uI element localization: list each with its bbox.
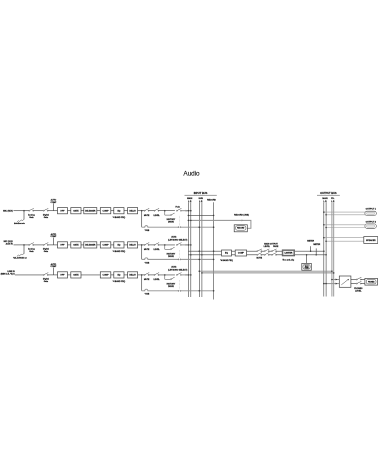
box EQ row2 [114,242,124,248]
wire main bus to fader lower [324,283,340,285]
box COMP row2 [100,242,111,248]
input bus header line [185,194,217,196]
meter tap R [315,248,317,254]
node record bus row1 [213,226,215,228]
node main bus R row3 [190,274,192,276]
svg-text:DELAY: DELAY [129,209,136,212]
wire COMP-EQ row3 [111,274,114,276]
node output bus main L [323,250,325,252]
arrow fader upper [336,279,338,281]
input label LINE IN row3 [1,271,16,276]
wire sub bus to master EQ lower [188,254,221,256]
svg-text:FADE: FADE [273,245,279,248]
label digital gain row1 [43,213,49,219]
wire master level-fade L [269,250,272,252]
wire pre-fader drop row2 [141,245,143,260]
box GATE row1 [71,208,81,214]
svg-text:COMP: COMP [103,210,110,212]
switch level row3 [154,273,159,276]
node recorder wire L [188,220,190,222]
wire input to analog gain row1 [14,210,30,212]
wire HPF-GATE row3 [68,274,71,276]
wire digital gain to HPF row2 [48,244,58,246]
wire fade switch to main bus row1 [181,210,191,212]
wire fader to phones switch lower [351,283,357,285]
box COMP row1 [100,208,111,214]
node phantom tap row2 [23,244,25,246]
output bus header line [317,194,340,196]
svg-text:MAIN OUTPUT: MAIN OUTPUT [264,243,278,246]
svg-text:MUTE: MUTE [144,279,150,281]
arrow into main bus row2 [186,244,188,246]
node meter L [310,250,312,252]
node test tone [306,254,308,256]
input label MIC2,3/AUX row2 [4,241,14,246]
switch digital gain row1 [43,208,48,211]
switch level row2 [154,243,159,246]
svg-text:*USB: *USB [145,294,150,296]
svg-text:L R: L R [199,201,203,203]
svg-text:DE-ESSER: DE-ESSER [85,210,96,212]
box DELAY row2 [128,242,138,248]
node speaker L [323,237,325,239]
channel row 3 LINE IN [1,263,215,296]
test tone tap [306,255,308,264]
wire master COMP to mute R [247,254,258,256]
input bus label MAIN L R [187,197,193,203]
selector pivot row2 [170,247,174,250]
wire master mute-level L [261,250,264,252]
svg-text:GATE: GATE [73,209,79,212]
wire main bus to recorder [188,220,251,228]
node output bus main R [325,254,327,256]
wire DEESSER-COMP row2 [97,244,101,246]
svg-text:*USB: *USB [145,230,150,232]
node sub L tap [199,270,201,272]
svg-text:DRIVE: DRIVE [168,286,175,288]
node record tap right [213,215,215,217]
svg-text:SPEAKER: SPEAKER [366,239,376,242]
wire master mute-level R [261,254,264,256]
svg-text:MAIN: MAIN [187,197,193,200]
wire phantom drop row1 [23,211,25,220]
box COMP row3 [100,272,111,278]
switch analog gain row2 [29,243,34,246]
svg-text:COMP: COMP [103,275,110,277]
label history drive row3 [167,283,176,288]
selector dashed link row1 [179,216,181,226]
node output2 R [325,227,327,229]
svg-text:AUX6: AUX6 [171,265,177,268]
node output1 L [323,211,325,213]
wire COMP-EQ row1 [111,210,114,212]
node main bus L row1 [188,210,190,212]
node recorder wire R [190,220,192,222]
wire DELAY to mute row2 [138,244,145,246]
node speaker R [325,240,327,242]
svg-text:DRIVE: DRIVE [168,256,175,258]
box DE-ESSER row2 [84,242,97,248]
input bus MAIN L vertical [187,202,189,297]
selector contacts on record send row1 [178,227,181,228]
wire phantom drop row2 [23,245,25,254]
label analog gain row1 [28,213,35,219]
test tone box [302,263,312,270]
wire DEESSER-COMP row1 [97,210,101,212]
phones fader box [339,276,351,287]
node main bus R row1 [190,210,192,212]
node output1 R [325,214,327,216]
output bus PH L vertical [331,202,333,296]
selector drop row2 [165,245,170,249]
svg-text:SUB: SUB [199,198,204,200]
node main bus L row2 [188,244,190,246]
node phones bus L join [331,270,333,272]
switch fade row1 [176,208,181,211]
svg-text:TEST: TEST [305,266,309,268]
node master feed upper 2 [213,250,215,252]
wire output2 L [324,224,365,226]
wire HPF-GATE row1 [68,210,71,212]
label digital gain row2 [43,248,49,254]
wire level to fade switch row2 [159,244,175,246]
auto comp tap row2 [52,238,54,245]
label digital gain row3 [43,278,49,284]
wire limiter to output bus R [295,254,327,256]
selector drop row3 [165,275,170,279]
wire output2 R [326,227,365,229]
svg-text:AUX IN: AUX IN [6,243,14,246]
svg-text:EQ: EQ [225,253,228,255]
wire record send right row1 [181,226,213,228]
svg-text:COMP: COMP [50,236,57,238]
label history drive row2 [167,253,176,257]
wire analog to digital gain row2 [33,244,44,246]
svg-text:COMP: COMP [103,245,110,247]
node master feed upper 1 [199,250,201,252]
switch master mute L [257,249,262,252]
label analog gain row2 [28,248,35,254]
switch phones level lower [356,281,361,284]
wire input to digital gain row3 [15,274,44,276]
node pre-mute junction row2 [141,244,143,246]
wire mute-level row2 [149,244,155,246]
label main send row2 [168,235,187,241]
box EQ row3 [114,272,124,278]
wire input to analog gain row2 [14,244,30,246]
selector contacts on record send row2 [178,259,181,260]
box HPF row1 [58,208,68,214]
wire master COMP to mute L [247,250,258,252]
svg-text:*4 BAND PEQ: *4 BAND PEQ [113,280,126,283]
box HPF row3 [58,272,68,278]
wire GATE-DEESSER row2 [81,244,84,246]
svg-text:GATE: GATE [73,274,79,277]
svg-text:RECORD (USB): RECORD (USB) [234,214,249,216]
svg-text:Gain: Gain [44,281,49,283]
svg-text:OUTPUT 1: OUTPUT 1 [366,208,377,210]
wire analog to digital gain row1 [33,210,44,212]
svg-text:(L/R MONO SELECT): (L/R MONO SELECT) [168,240,187,242]
switch mute row3 [144,273,149,276]
node sub bus tap row1 [199,226,201,228]
label auto comp row3 [50,263,57,268]
input bus RECORD vertical [213,202,215,299]
wire master level-fade R [269,254,272,256]
svg-text:The anti-clip: The anti-clip [282,258,294,261]
svg-text:LEVEL: LEVEL [264,246,271,248]
wire fader to phones switch upper [351,279,357,281]
node post-level junction row3 [164,274,166,276]
phantom squiggle row1 [17,219,24,222]
output bus MAIN R vertical [325,202,327,296]
input bus MAIN R vertical [190,202,192,297]
svg-text:AUX6: AUX6 [171,235,177,238]
switch fade row2 [176,243,181,246]
svg-text:PHONES: PHONES [368,282,375,284]
output bus label PH L R [331,198,335,203]
wire sub bus to phones bus R [202,272,334,274]
box GATE row3 [71,272,81,278]
selector contacts on record send row3 [178,290,181,291]
wire EQ-DELAY row3 [124,274,128,276]
wire main to recorder tap [188,214,213,216]
wire fade switch to main bus row2 [181,244,191,246]
wire sub bus to master EQ upper [188,250,221,252]
wire speaker L [324,237,364,239]
svg-text:EQ: EQ [117,245,120,247]
box HPF row2 [58,242,68,248]
svg-text:MAIN: MAIN [322,197,328,200]
wire EQ-DELAY row1 [124,210,128,212]
node sub R tap [201,272,203,274]
svg-text:(MINI 3.5, *4) S: (MINI 3.5, *4) S [1,273,16,276]
box GATE row2 [71,242,81,248]
node phantom tap row1 [23,210,25,212]
svg-text:DRIVE: DRIVE [168,222,175,224]
switch digital gain row2 [43,243,48,246]
wire level to fade switch row3 [159,274,175,276]
svg-text:DELAY: DELAY [129,274,136,277]
wire DELAY to mute row3 [138,274,145,276]
wire mute-level row3 [149,274,155,276]
wire fade switch to main bus row3 [181,274,191,276]
wire HPF-GATE row2 [68,244,71,246]
node output2 L [323,224,325,226]
label history drive row1 [167,219,176,224]
channel row 2 MIC2,3/AUX [4,233,215,264]
switch master mute R [257,253,262,256]
wire limiter to output bus L [295,250,324,252]
recorder box [234,225,247,232]
input bus SUB R vertical [201,202,203,297]
wire master EQ-COMP upper [232,250,236,252]
svg-text:EQ: EQ [117,275,120,277]
svg-text:DELAY: DELAY [129,244,136,247]
switch master fade R [271,253,276,256]
svg-text:LEVEL: LEVEL [153,215,160,217]
svg-text:Gain: Gain [29,217,34,219]
label main output level fade [264,243,279,249]
wire COMP-EQ row2 [111,244,114,246]
node phones bus R join [333,272,335,274]
svg-text:METER: METER [313,244,320,246]
switch master level R [264,253,269,256]
svg-text:LEVEL: LEVEL [355,291,362,293]
svg-text:TONE: TONE [304,268,308,270]
wire record send left row1 [142,226,178,228]
output bus MAIN L vertical [323,202,325,296]
label auto comp row1 [50,199,57,204]
node record bus row2 [213,259,215,261]
svg-text:MIC (M/X): MIC (M/X) [3,211,13,213]
wire record send left row3 [142,289,178,291]
wire record send left row2 [142,258,178,260]
wire phones switch to jack upper [361,279,365,281]
svg-text:Gain: Gain [44,217,49,219]
box master EQ [222,250,232,256]
node sub bus tap row2 [199,259,201,261]
box master COMP [235,250,246,256]
input bus label SUB L R [199,198,204,203]
svg-text:LEVEL: LEVEL [153,279,160,281]
svg-text:*2A-ACROSS st: *2A-ACROSS st [13,256,27,259]
svg-text:COMP: COMP [50,266,57,268]
switch mute row1 [144,208,149,211]
node sub bus tap row3 [199,290,201,292]
wire pre-fader drop row1 [141,211,143,228]
switch level row1 [154,208,159,211]
node post-level junction row2 [164,244,166,246]
node record tap left [188,215,190,217]
selector dashed link row2 [179,250,181,258]
connector output1 [365,211,376,215]
box limiter U1 [282,250,294,256]
svg-text:OUTPUT BUS: OUTPUT BUS [320,191,337,195]
svg-text:LIMITER: LIMITER [284,253,292,255]
switch master fade L [271,249,276,252]
switch phones level upper [356,277,361,280]
node fader lower L [323,283,325,285]
label main send row3 [168,265,187,271]
wire phones bus to fader upper [332,279,339,281]
node meter R [315,254,317,256]
wire master fade to limiter L [276,250,282,252]
switch fade row3 [176,273,181,276]
node record bus row3 [213,290,215,292]
wire sub bus to phones bus L [199,270,332,272]
arrow fader lower [336,283,338,285]
node master feed lower 1 [190,254,192,256]
svg-text:*4 BAND PEQ: *4 BAND PEQ [113,250,126,253]
box EQ row1 [114,208,124,214]
svg-text:LEVEL: LEVEL [153,249,160,251]
svg-text:DE-ESSER: DE-ESSER [85,245,96,247]
svg-text:Audio: Audio [183,171,200,178]
svg-text:PH.: PH. [331,198,335,200]
svg-text:METER: METER [307,240,314,242]
wire DELAY to mute row1 [138,210,145,212]
wire mute-level row1 [149,210,155,212]
selector dashed link row3 [179,280,181,290]
wire output1 R [326,214,365,216]
svg-text:COMP: COMP [50,202,57,204]
svg-text:MUTE: MUTE [257,257,263,259]
auto comp tap row3 [52,268,54,275]
node pre-mute junction row1 [141,210,143,212]
auto comp tap row1 [52,203,54,210]
arrow on recorder wire [242,219,244,221]
input bus SUB L vertical [198,202,200,297]
arrow into main bus row3 [186,274,188,276]
switch mute row2 [144,243,149,246]
svg-text:EQ: EQ [117,210,120,212]
wire EQ-DELAY row2 [124,244,128,246]
svg-text:*4 BAND PEQ: *4 BAND PEQ [220,259,233,262]
svg-text:INPUT BUS: INPUT BUS [194,191,208,195]
wire record send right row3 [181,290,213,292]
arrow into main bus row1 [186,210,188,212]
box DELAY row3 [128,272,138,278]
wire digital gain to HPF row3 [48,274,58,276]
phantom squiggle row2 [17,253,24,256]
svg-text:Interliver-etc: Interliver-etc [14,222,25,225]
svg-text:Gain: Gain [44,251,49,253]
svg-text:MUTE: MUTE [144,215,150,217]
phones jack box [365,278,378,285]
wire speaker R [326,240,364,242]
box DE-ESSER row1 [84,208,97,214]
svg-text:COMP: COMP [238,253,245,255]
output bus label MAIN L R [322,197,328,203]
wire digital gain to HPF row1 [48,210,58,212]
node master feed lower 2 [201,254,203,256]
label phones level [354,288,363,293]
switch digital gain row3 [43,273,48,276]
node main bus R row2 [190,244,192,246]
wire GATE-DEESSER row1 [81,210,84,212]
box DELAY row1 [128,208,138,214]
svg-text:Gain: Gain [29,251,34,253]
svg-text:(L/R MONO SELECT): (L/R MONO SELECT) [168,270,187,272]
svg-text:RECORD: RECORD [207,200,216,202]
wire output1 L [324,211,365,213]
box speaker [364,237,378,244]
node pre-mute junction row3 [141,274,143,276]
selector drop row1 [165,211,170,215]
wire master fade to limiter R [276,254,282,256]
svg-text:RECORD: RECORD [237,228,245,230]
switch master level L [264,249,269,252]
selector pivot row3 [170,277,174,280]
channel row 1 MIC [3,199,214,232]
node post-level junction row1 [164,210,166,212]
meter tap L [310,246,312,251]
wire phones switch to jack lower [361,283,365,285]
wire level to fade switch row1 [159,210,175,212]
svg-text:GATE: GATE [73,244,79,247]
svg-text:MUTE: MUTE [144,249,150,251]
connector output2 [365,224,376,228]
wire GATE-COMP row3 [81,274,100,276]
svg-text:OUTPUT 2: OUTPUT 2 [366,222,377,224]
node phones fader upper [331,279,333,281]
node main bus L row3 [188,274,190,276]
wire master EQ-COMP lower [232,254,236,256]
svg-text:*USB: *USB [145,262,150,264]
switch analog gain row1 [29,208,34,211]
output bus PH R vertical [333,202,335,296]
